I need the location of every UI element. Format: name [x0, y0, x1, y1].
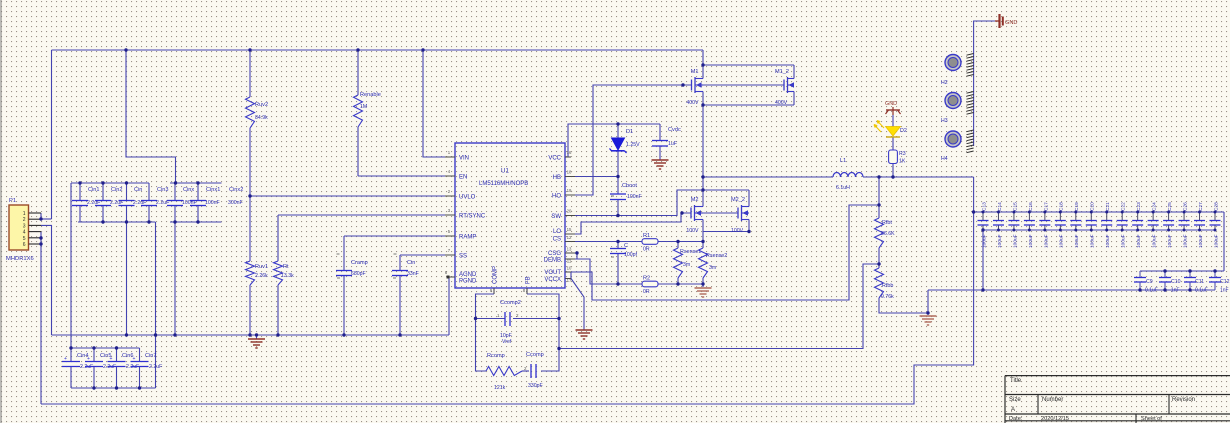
title block	[1005, 375, 1230, 377]
svg-text:C14: C14	[997, 202, 1003, 211]
svg-text:GND: GND	[885, 101, 897, 107]
svg-text:PGND: PGND	[459, 279, 477, 285]
svg-text:CS: CS	[553, 237, 561, 243]
wire output cap bank bottom rail	[983, 229, 1215, 231]
capacitor Cin	[126, 183, 128, 200]
svg-text:Date:: Date:	[1009, 416, 1023, 422]
svg-text:Cin3: Cin3	[157, 187, 169, 193]
capacitor C13	[982, 212, 984, 220]
pin 7 SS	[445, 254, 455, 256]
svg-text:MHDR1X6: MHDR1X6	[6, 256, 34, 262]
svg-text:100uF: 100uF	[1074, 234, 1080, 248]
capacitor Cboot	[610, 193, 626, 195]
svg-text:U1: U1	[501, 168, 509, 175]
svg-text:100uF: 100uF	[981, 234, 987, 248]
svg-text:100V: 100V	[686, 228, 699, 234]
svg-text:0.1uF: 0.1uF	[1195, 288, 1208, 294]
pin 12 CS	[565, 241, 575, 243]
svg-text:LM5116MH/NOPB: LM5116MH/NOPB	[479, 181, 528, 187]
op-amp U1 chip body LM5116	[455, 143, 565, 288]
pin 3 RT/SYNC	[445, 214, 455, 216]
svg-text:H3: H3	[941, 118, 948, 124]
svg-text:C25: C25	[1167, 202, 1173, 211]
wire M1 drain rail	[703, 64, 794, 66]
svg-text:Cin7: Cin7	[145, 353, 157, 359]
capacitor C12	[1214, 271, 1216, 277]
wire VOUT VCCX tie	[565, 272, 571, 279]
connector P1 MHDR1X6	[9, 205, 29, 250]
svg-text:R3: R3	[899, 151, 906, 157]
capacitor C21	[1106, 212, 1108, 220]
wire input cap group A top rail	[71, 182, 149, 184]
svg-text:C10: C10	[1171, 279, 1181, 285]
zener diode D1	[612, 138, 625, 150]
svg-text:100uF: 100uF	[1213, 234, 1219, 248]
capacitor Cramp	[336, 270, 352, 272]
transistor M2	[690, 208, 692, 219]
svg-text:Cin2: Cin2	[111, 187, 123, 193]
wire bulk cap bottom rail	[71, 387, 156, 389]
svg-text:Ruv1: Ruv1	[255, 264, 268, 270]
resistor Rsense2	[699, 248, 708, 278]
wire bank bottom to ground line	[982, 230, 984, 290]
svg-text:M1: M1	[691, 69, 699, 75]
capacitor C22	[1121, 212, 1123, 220]
wire VIN drop to cap group B	[126, 50, 176, 183]
capacitor C16	[1028, 212, 1030, 220]
pin 15 LO	[565, 233, 575, 235]
power port PGND	[995, 20, 1000, 22]
svg-text:100uF: 100uF	[1121, 234, 1127, 248]
wire LO to M2 gate	[565, 213, 691, 234]
wire P1 pin3 to AGND bus	[41, 225, 52, 335]
svg-text:6.1uH: 6.1uH	[836, 185, 850, 191]
resistor Rfbb	[875, 268, 884, 298]
svg-text:100uF: 100uF	[1059, 234, 1065, 248]
wire R3 bottom lead	[892, 164, 894, 178]
wire GND drop x175	[174, 222, 176, 335]
svg-text:M2: M2	[691, 197, 699, 203]
resistor Rcomp	[486, 367, 522, 376]
svg-text:C18: C18	[1059, 202, 1065, 211]
svg-text:D2: D2	[900, 128, 907, 134]
svg-text:Cinx2: Cinx2	[229, 187, 243, 193]
svg-text:17: 17	[567, 278, 572, 283]
svg-text:C26: C26	[1182, 202, 1188, 211]
svg-text:100uF: 100uF	[1105, 234, 1111, 248]
wire COMP stub drop	[493, 288, 495, 294]
svg-text:19: 19	[567, 188, 572, 193]
svg-text:86.6K: 86.6K	[881, 231, 895, 237]
svg-text:C20: C20	[1090, 202, 1096, 211]
capacitor C15	[1013, 212, 1015, 220]
svg-text:Title: Title	[1010, 378, 1022, 384]
svg-text:Cboot: Cboot	[622, 183, 637, 189]
svg-text:2020/12/15: 2020/12/15	[1041, 416, 1069, 422]
svg-text:0.1uF: 0.1uF	[1145, 288, 1158, 294]
wire hf cap top rail	[1140, 270, 1224, 272]
wire Rsense1 leads	[677, 242, 679, 249]
svg-text:M2_2: M2_2	[731, 197, 745, 203]
wire HO to M1 gate	[565, 85, 692, 195]
wire D2 top lead	[892, 115, 894, 127]
ground VCCX	[576, 329, 593, 331]
svg-text:VCCX: VCCX	[544, 277, 561, 283]
svg-text:HB: HB	[553, 175, 561, 181]
svg-text:Rcomp: Rcomp	[487, 353, 505, 359]
wire Rfbb bottom to ground	[879, 298, 928, 313]
capacitor C25	[1168, 212, 1170, 220]
svg-text:R2: R2	[643, 276, 650, 282]
wire R3 top lead	[892, 138, 894, 151]
svg-text:100uF: 100uF	[997, 234, 1003, 248]
svg-text:12: 12	[567, 235, 572, 240]
polarized capacitor Cin7	[139, 348, 141, 361]
capacitor C26	[1183, 212, 1185, 220]
wire VCC riser to boot diode rail	[565, 124, 660, 157]
svg-text:Vref: Vref	[502, 339, 512, 345]
wire bank top to hf cap rail	[1223, 212, 1225, 271]
wire Cvdc bottom lead	[659, 147, 661, 161]
wire P1 pin1-2 tie	[40, 213, 42, 219]
svg-text:Ruv2: Ruv2	[255, 102, 268, 108]
wire output cap bank top rail	[974, 211, 1224, 213]
wire Cvdc top lead	[659, 124, 661, 140]
wire D1 top lead	[617, 124, 619, 138]
svg-text:1uF: 1uF	[668, 141, 677, 147]
svg-text:18: 18	[567, 170, 572, 175]
svg-text:Ccomp2: Ccomp2	[500, 300, 521, 306]
svg-text:M1_2: M1_2	[775, 69, 789, 75]
wire sense node column	[702, 232, 704, 242]
wire SW to inductor	[703, 176, 833, 178]
wire Rt column	[277, 215, 279, 261]
wire GND drop x126	[126, 222, 128, 335]
pin 18 HB	[565, 176, 575, 178]
svg-text:C: C	[624, 243, 628, 249]
svg-text:6: 6	[23, 242, 26, 248]
svg-text:1K: 1K	[899, 159, 906, 165]
resistor Ruv2	[246, 97, 255, 128]
svg-text:Rfbb: Rfbb	[882, 283, 893, 289]
svg-text:5: 5	[23, 236, 26, 242]
wire FB stub drop	[526, 288, 528, 294]
svg-text:Number: Number	[1042, 397, 1063, 403]
wire C100p leads	[617, 242, 619, 249]
svg-text:C13: C13	[981, 202, 987, 211]
svg-text:Cinx: Cinx	[183, 187, 194, 193]
svg-text:C17: C17	[1043, 202, 1049, 211]
wire UVLO divider column	[249, 50, 251, 97]
wire UVLO to chip	[250, 195, 455, 197]
capacitor Cinx	[174, 183, 176, 200]
svg-text:Rt: Rt	[283, 264, 289, 270]
resistor Rsense1	[674, 248, 683, 278]
wire M1_2 drain lead	[793, 65, 795, 79]
wire DEMB to sense ground line	[577, 259, 642, 284]
wire GND drop x155	[155, 222, 157, 388]
wire M2 source rail	[703, 220, 749, 232]
svg-text:10: 10	[567, 266, 572, 271]
capacitor Cin2	[102, 183, 104, 200]
capacitor C20	[1090, 212, 1092, 220]
capacitor C24	[1152, 212, 1154, 220]
svg-text:3m: 3m	[709, 265, 716, 271]
svg-text:3: 3	[23, 223, 26, 229]
wire VIN top bus	[52, 49, 704, 51]
wire divider mid	[878, 248, 880, 268]
wire Renable column	[357, 50, 359, 95]
pin 11 DEMB	[565, 258, 575, 260]
capacitor C 100pF	[610, 248, 626, 250]
transistor M1_2	[783, 80, 785, 91]
svg-text:C22: C22	[1121, 202, 1127, 211]
pin 10 VOUT	[565, 271, 571, 273]
svg-text:100nF: 100nF	[205, 200, 220, 206]
wire SW pin to node	[565, 190, 703, 216]
wire input cap group A bottom rail	[78, 221, 156, 223]
svg-text:100uF: 100uF	[1198, 234, 1204, 248]
svg-text:Rfbt: Rfbt	[882, 220, 892, 226]
svg-text:C11: C11	[1195, 279, 1204, 285]
svg-text:Size: Size	[1009, 397, 1021, 403]
wire AGND bus	[52, 334, 450, 336]
svg-text:400V: 400V	[686, 100, 699, 106]
pin 17 VCCX	[565, 278, 571, 280]
capacitor C18	[1059, 212, 1061, 220]
ground sense	[695, 287, 712, 289]
ground Cvdc	[652, 159, 669, 161]
svg-text:C19: C19	[1074, 202, 1080, 211]
svg-text:100V: 100V	[731, 228, 744, 234]
capacitor Ccomp2	[504, 312, 506, 326]
svg-text:84.9k: 84.9k	[255, 115, 268, 121]
svg-text:20: 20	[567, 209, 572, 214]
svg-text:P1: P1	[9, 198, 16, 204]
svg-text:C27: C27	[1198, 202, 1204, 211]
svg-text:GND: GND	[1005, 20, 1017, 26]
svg-text:11: 11	[567, 259, 572, 264]
svg-text:15: 15	[567, 227, 572, 232]
svg-text:VOUT: VOUT	[544, 270, 561, 276]
svg-text:AGND: AGND	[459, 272, 477, 278]
pin 19 HO	[565, 194, 575, 196]
svg-text:300nF: 300nF	[228, 200, 243, 206]
svg-text:100uF: 100uF	[1136, 234, 1142, 248]
capacitor C14	[997, 212, 999, 220]
svg-text:FB: FB	[526, 276, 532, 284]
resistor Rt	[274, 261, 283, 285]
svg-text:400V: 400V	[775, 100, 788, 106]
wire Vout sense column	[878, 177, 880, 218]
svg-text:SW: SW	[551, 214, 561, 220]
wire RT/SYNC to chip	[278, 214, 455, 216]
svg-text:H4: H4	[941, 156, 948, 162]
wire Rcomp-Ccomp link	[522, 370, 529, 372]
svg-text:100uF: 100uF	[1043, 234, 1049, 248]
svg-text:4: 4	[23, 230, 26, 236]
svg-text:100uF: 100uF	[1090, 234, 1096, 248]
svg-text:1.25V: 1.25V	[626, 142, 640, 148]
capacitor Cin 33nF	[392, 270, 408, 272]
wire CS line	[565, 241, 642, 243]
svg-text:VCC: VCC	[548, 156, 561, 162]
svg-text:D1: D1	[626, 129, 633, 135]
wire M1 source rail	[703, 104, 794, 106]
junction dots	[124, 48, 127, 51]
ground AGND bus	[248, 338, 265, 340]
svg-text:Cramp: Cramp	[351, 260, 368, 266]
capacitor C9	[1139, 271, 1141, 277]
capacitor Cinx1	[197, 183, 199, 200]
wire EN to chip	[358, 175, 455, 177]
polarized capacitor Cin4	[70, 348, 72, 361]
wire VIN column to bulk caps	[70, 183, 72, 348]
wire inductor to output node	[863, 176, 974, 178]
svg-text:0R: 0R	[643, 247, 650, 253]
capacitor C23	[1137, 212, 1139, 220]
wire AGND pin drop	[449, 277, 455, 335]
pin 6 AGND 14 PGND	[449, 276, 455, 278]
svg-text:L1: L1	[840, 158, 846, 164]
svg-text:13: 13	[567, 247, 572, 252]
svg-text:100uF: 100uF	[1182, 234, 1188, 248]
wire SW column	[702, 105, 704, 190]
wire M1 drain lead	[702, 65, 704, 79]
capacitor C10	[1164, 271, 1166, 277]
wire P1 pin2 to riser	[41, 218, 52, 220]
pin 4 EN	[445, 175, 455, 177]
resistor Rfbt	[875, 218, 884, 248]
wire output ground line	[927, 290, 929, 313]
svg-text:16: 16	[567, 150, 572, 155]
wire Cramp leads	[343, 236, 345, 270]
svg-text:Renable: Renable	[360, 92, 381, 98]
wire HB to chip	[565, 176, 618, 178]
svg-text:121k: 121k	[494, 385, 506, 391]
svg-text:100uF: 100uF	[1028, 234, 1034, 248]
wire sense ground line right	[658, 283, 703, 285]
svg-text:2.26k: 2.26k	[255, 273, 268, 279]
wire input cap group B bottom rail	[170, 221, 222, 223]
svg-text:COMP: COMP	[493, 266, 499, 284]
capacitor Cin1	[79, 183, 81, 200]
wire Cboot leads	[617, 177, 619, 195]
wire M1 gate bus to M1_2	[703, 84, 784, 86]
tiny cap pin marks	[337, 253, 340, 255]
pin 2 UVLO	[445, 195, 455, 197]
svg-text:C21: C21	[1105, 202, 1111, 211]
svg-text:33nF: 33nF	[407, 271, 419, 277]
polarized capacitor Cin6	[116, 348, 118, 361]
svg-text:UVLO: UVLO	[459, 195, 476, 201]
wire pin2 riser	[51, 50, 53, 219]
svg-text:VIN: VIN	[459, 156, 469, 162]
wire bottom bus PGND/VOUT return	[41, 177, 974, 404]
wire SS to chip	[400, 254, 455, 256]
wire Cin leads	[399, 255, 401, 270]
svg-text:EN: EN	[459, 175, 467, 181]
svg-text:2.2uF: 2.2uF	[149, 364, 162, 370]
wire VIN drop to chip VIN	[423, 50, 445, 157]
wire ground stub at sense line	[702, 284, 704, 287]
svg-text:DEMB: DEMB	[544, 258, 561, 264]
svg-text:H2: H2	[941, 80, 948, 86]
svg-text:RAMP: RAMP	[459, 235, 476, 241]
svg-text:C9: C9	[1146, 279, 1153, 285]
capacitor Ccomp	[530, 364, 532, 378]
wire Ccomp2 branch	[476, 318, 506, 320]
wire bulk cap top rail	[71, 347, 140, 349]
wire D1 bottom lead / HB node	[617, 151, 619, 177]
inductor L1	[833, 173, 863, 178]
resistor Renable	[354, 95, 363, 127]
svg-text:A: A	[1011, 407, 1015, 413]
capacitor C11	[1189, 271, 1191, 277]
svg-text:R1: R1	[643, 233, 650, 239]
svg-text:C15: C15	[1012, 202, 1018, 211]
svg-text:SS: SS	[459, 254, 467, 260]
wire M1 feed drop	[702, 50, 704, 65]
hole hatch pins	[967, 54, 974, 56]
transistor M2_2	[737, 208, 739, 219]
svg-text:13.3k: 13.3k	[281, 273, 294, 279]
svg-text:Cin: Cin	[407, 260, 415, 266]
pin 5 RAMP	[445, 235, 455, 237]
svg-text:100pf: 100pf	[624, 252, 638, 258]
svg-text:+: +	[110, 356, 113, 362]
LED D2	[886, 127, 901, 137]
svg-text:HO: HO	[552, 194, 561, 200]
svg-text:C12: C12	[1220, 279, 1230, 285]
svg-text:680pF: 680pF	[351, 271, 366, 277]
resistor R2	[642, 281, 658, 287]
svg-text:+: +	[133, 356, 136, 362]
svg-text:Rsense2: Rsense2	[706, 253, 727, 259]
svg-text:LO: LO	[553, 229, 561, 235]
svg-text:Ccomp: Ccomp	[526, 352, 544, 358]
svg-text:C16: C16	[1028, 202, 1034, 211]
svg-text:Sheet of: Sheet of	[1141, 416, 1162, 422]
pin 16 VCC	[565, 156, 571, 158]
svg-text:Cvdc: Cvdc	[668, 127, 681, 133]
wire VCCX diagonal to ground	[571, 279, 584, 331]
svg-text:Cin: Cin	[134, 187, 142, 193]
wire PGND port lead	[974, 21, 995, 146]
capacitor C19	[1075, 212, 1077, 220]
pin 8 FB	[526, 288, 528, 294]
wire comp loop left	[476, 294, 495, 371]
wire comp loop right	[527, 294, 559, 371]
svg-text:1nF: 1nF	[1171, 288, 1180, 294]
wire RAMP to chip	[344, 235, 455, 237]
transistor M1	[691, 80, 693, 91]
svg-text:1: 1	[23, 211, 26, 217]
resistor R3	[889, 150, 898, 164]
svg-text:0R: 0R	[643, 289, 650, 295]
capacitor Cin3	[148, 183, 150, 200]
bank rail dots	[982, 211, 985, 214]
svg-text:100uF: 100uF	[1167, 234, 1173, 248]
svg-text:3m: 3m	[683, 262, 690, 268]
svg-text:Revision: Revision	[1172, 397, 1195, 403]
wire VOUT sense run	[571, 205, 879, 300]
mounting hole H2	[945, 55, 961, 71]
svg-text:CSG: CSG	[548, 251, 561, 257]
wire P1 pin4-6 tie and drop to bottom bus	[40, 232, 42, 404]
svg-text:RT/SYNC: RT/SYNC	[459, 214, 486, 220]
wire M2 gate bus to M2_2	[703, 212, 738, 214]
